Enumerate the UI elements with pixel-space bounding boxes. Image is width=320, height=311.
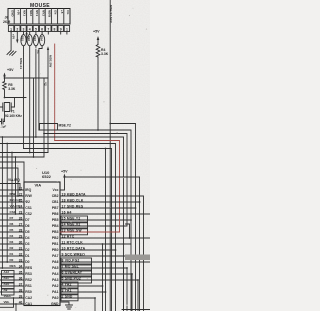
svg-text:D4: D4 — [10, 234, 14, 238]
svg-text:3.3K: 3.3K — [8, 87, 16, 91]
svg-text:Y1: Y1 — [11, 110, 15, 114]
svg-text:RS0: RS0 — [25, 290, 32, 294]
svg-text:MY2: MY2 — [41, 10, 45, 16]
svg-text:PB5: PB5 — [52, 218, 59, 222]
filter FB4 oval — [40, 35, 45, 46]
svg-text:22: 22 — [19, 192, 23, 196]
scan specks — [35, 167, 38, 170]
svg-text:PB7: PB7 — [52, 206, 59, 210]
pin 35 RS3 — [0, 273, 24, 275]
svg-text:2: 2 — [16, 28, 18, 32]
wire mesh lv3 — [15, 157, 17, 214]
svg-text:Φ2.CLK: Φ2.CLK — [10, 198, 22, 202]
svg-text:28: 28 — [19, 228, 23, 232]
svg-text:35: 35 — [19, 270, 23, 274]
wire mesh h2 MSE.X2 — [44, 134, 127, 227]
left label boxes A12-A9 — [2, 271, 15, 278]
svg-text:R/W: R/W — [10, 192, 16, 196]
svg-text:21: 21 — [19, 186, 23, 190]
svg-text:26-9: 26-9 — [3, 20, 10, 24]
pin 40 CA1 — [0, 303, 24, 305]
svg-text:CA2: CA2 — [25, 296, 32, 300]
svg-text:D0: D0 — [25, 260, 29, 264]
svg-text:D6: D6 — [10, 222, 14, 226]
svg-text:D3: D3 — [10, 240, 14, 244]
svg-text:29: 29 — [19, 234, 23, 238]
svg-text:GND: GND — [51, 302, 59, 306]
svg-text:PB6: PB6 — [52, 212, 59, 216]
svg-text:VBL: VBL — [4, 300, 10, 304]
svg-text:MY1: MY1 — [35, 10, 39, 16]
svg-text:RES: RES — [10, 264, 16, 268]
svg-text:PA0: PA0 — [52, 296, 58, 300]
svg-text:D1: D1 — [25, 254, 29, 258]
pin 37 RS1 — [0, 285, 24, 287]
+5V arrow between filters — [26, 34, 28, 42]
svg-text:VIA.IRQ: VIA.IRQ — [8, 178, 20, 182]
svg-text:33: 33 — [19, 258, 23, 262]
svg-text:D3: D3 — [25, 242, 29, 246]
wire mesh h1 MSE.Y2 — [39, 130, 131, 244]
pin 28 D5 — [0, 231, 24, 233]
svg-text:CS2: CS2 — [25, 212, 32, 216]
wire v2 — [29, 32, 31, 153]
wire IRQ feed — [0, 184, 20, 191]
wire MSE.X1 v1 — [23, 32, 25, 149]
svg-text:GND: GND — [10, 10, 14, 16]
svg-text:D2: D2 — [10, 246, 14, 250]
svg-text:CS2: CS2 — [10, 210, 16, 214]
wire mesh h8 — [0, 156, 44, 158]
svg-text:D4: D4 — [25, 236, 29, 240]
gray blob — [125, 255, 150, 261]
pin 36 RS2 — [0, 279, 24, 281]
wire long vertical from top — [110, 0, 135, 311]
svg-text:39: 39 — [19, 294, 23, 298]
svg-text:PA3: PA3 — [52, 278, 58, 282]
resistor R5 — [3, 79, 7, 98]
svg-text:D7: D7 — [25, 218, 29, 222]
svg-text:MSW: MSW — [48, 10, 52, 17]
svg-text:34: 34 — [19, 264, 23, 268]
svg-text:MSE.Y1.SCC: MSE.Y1.SCC — [109, 5, 113, 24]
pin 22 R/W — [0, 195, 24, 197]
svg-text:IRQ: IRQ — [25, 188, 31, 192]
pin 25 Φ2 — [0, 201, 24, 203]
svg-text:RS1: RS1 — [25, 284, 32, 288]
pin 31 D2 — [0, 249, 24, 251]
svg-text:6522: 6522 — [42, 174, 52, 179]
svg-text:D6: D6 — [25, 224, 29, 228]
svg-text:PA4: PA4 — [52, 272, 58, 276]
svg-text:.1µF: .1µF — [1, 125, 7, 129]
svg-text:9: 9 — [60, 28, 62, 32]
svg-text:31: 31 — [19, 246, 23, 250]
wire R4 down — [97, 57, 99, 130]
bottom right exit line — [122, 309, 150, 311]
wire mesh lv1 — [1, 137, 3, 268]
svg-text:D7: D7 — [10, 216, 14, 220]
svg-text:5: 5 — [35, 28, 37, 32]
svg-text:GN: GN — [54, 10, 58, 14]
pin 30 D3 — [0, 243, 24, 245]
pin 24 CS1 — [0, 207, 24, 209]
svg-text:14 MSE.X2: 14 MSE.X2 — [62, 222, 81, 226]
svg-text:6: 6 — [41, 28, 43, 32]
filter FB1 oval — [21, 35, 26, 46]
svg-text:40: 40 — [19, 300, 23, 304]
wire mesh h5 — [0, 144, 116, 311]
junction stub — [126, 224, 130, 238]
wire mesh lv2b — [11, 153, 13, 209]
+5V line to bus — [65, 176, 140, 178]
wire v7 rail corner h7 with +5V arrow — [47, 50, 49, 153]
pin 39 CA2 — [0, 297, 24, 299]
wire mesh lv2 — [6, 144, 8, 263]
svg-text:PB4: PB4 — [52, 224, 59, 228]
svg-text:D5: D5 — [10, 228, 14, 232]
svg-text:27: 27 — [19, 222, 23, 226]
svg-text:MX1: MX1 — [23, 10, 27, 16]
svg-text:PA7: PA7 — [52, 254, 58, 258]
svg-text:8: 8 — [54, 28, 56, 32]
svg-text:38: 38 — [19, 288, 23, 292]
svg-text:36: 36 — [19, 276, 23, 280]
wire MSE.Y2 v4 (jog) — [39, 32, 42, 131]
red wire MSE.SW row overlabel — [60, 231, 120, 233]
svg-text:MSE.Y2: MSE.Y2 — [59, 124, 72, 128]
wire mesh h6 — [24, 149, 112, 311]
svg-text:PB3: PB3 — [52, 230, 59, 234]
svg-text:+5V: +5V — [93, 30, 100, 34]
connector stubs c7-c10 — [48, 32, 67, 35]
svg-text:26: 26 — [19, 216, 23, 220]
wire mesh h3 — [0, 137, 124, 311]
svg-text:MX2: MX2 — [29, 10, 33, 16]
svg-text:23: 23 — [19, 210, 23, 214]
wire mesh h10 — [0, 168, 18, 196]
pin 29 D4 — [0, 237, 24, 239]
svg-text:MSE.X1: MSE.X1 — [19, 58, 23, 69]
bottom left verticals — [0, 298, 16, 311]
svg-text:VIA.CS: VIA.CS — [10, 204, 20, 208]
svg-text:PA1: PA1 — [52, 290, 58, 294]
wire vertical x105.5 — [105, 149, 107, 311]
pin 26 D7 — [0, 219, 24, 221]
svg-text:VIA: VIA — [35, 183, 42, 188]
+5V down arrow — [16, 32, 18, 41]
svg-text:D0: D0 — [10, 258, 14, 262]
svg-text:MSE.SW: MSE.SW — [49, 55, 53, 67]
svg-text:+5: +5 — [60, 10, 64, 14]
wire mesh h7 — [0, 152, 48, 154]
svg-text:D5: D5 — [25, 230, 29, 234]
svg-text:1: 1 — [66, 28, 68, 32]
crystal Y1 — [0, 98, 15, 112]
svg-text:3: 3 — [23, 28, 25, 32]
box label VID.PG2 — [61, 258, 92, 265]
pin 27 D6 — [0, 225, 24, 227]
filter FB2 oval — [27, 35, 32, 46]
svg-text:+5V: +5V — [7, 68, 14, 72]
svg-text:D2: D2 — [25, 248, 29, 252]
connector J6 body — [8, 9, 70, 25]
svg-text:R/W: R/W — [25, 194, 32, 198]
wire v6 rail corner h8 — [43, 78, 45, 157]
svg-text:+5V: +5V — [12, 34, 16, 39]
svg-text:30: 30 — [19, 240, 23, 244]
svg-text:CG: CG — [66, 10, 70, 15]
filter FB3 oval — [33, 35, 38, 46]
svg-text:PA6: PA6 — [52, 260, 58, 264]
svg-text:CB1: CB1 — [52, 200, 59, 204]
svg-text:3.3K: 3.3K — [101, 52, 109, 56]
svg-text:PB2: PB2 — [52, 236, 59, 240]
svg-text:CA1: CA1 — [25, 302, 32, 306]
svg-text:D1: D1 — [10, 252, 14, 256]
wire v5 from rail — [33, 78, 35, 157]
svg-text:+5V: +5V — [17, 10, 21, 15]
wire v3 black — [35, 32, 37, 138]
svg-text:4: 4 — [29, 28, 31, 32]
resistor R4 — [96, 45, 100, 58]
svg-text:CS1: CS1 — [25, 206, 32, 210]
svg-text:37: 37 — [19, 282, 23, 286]
ground GND pin — [60, 302, 69, 305]
svg-text:CB2: CB2 — [52, 194, 59, 198]
pin 32 D1 — [0, 255, 24, 257]
svg-text:PA5: PA5 — [52, 266, 58, 270]
capacitor C left edge — [0, 112, 5, 125]
wire mesh h9 — [0, 162, 24, 182]
crystal circuit line — [5, 97, 27, 99]
wire mesh h4 red MSE.SW — [55, 141, 120, 233]
svg-text:RS2: RS2 — [25, 278, 32, 282]
wire MSE.SW red from c8 — [54, 44, 56, 141]
svg-text:RS3: RS3 — [25, 272, 32, 276]
svg-text:Y1: Y1 — [36, 50, 40, 54]
svg-text:PB0: PB0 — [52, 248, 59, 252]
pin 21 IRQ — [0, 189, 24, 191]
svg-text:PB1: PB1 — [52, 242, 59, 246]
svg-text:32: 32 — [19, 252, 23, 256]
chassis ground — [7, 51, 16, 56]
pin 38 RS0 — [0, 291, 24, 293]
pin 23 CS2 — [0, 213, 24, 215]
svg-text:7: 7 — [47, 28, 49, 32]
+5V rail — [5, 77, 49, 79]
svg-text:Vcc: Vcc — [52, 188, 58, 192]
op-amp U10 VIA 6522 box — [24, 182, 60, 306]
wire pin1 to ground — [11, 32, 17, 51]
pin 33 D0 — [0, 261, 24, 263]
label MSE.Y2 bracket — [40, 124, 58, 130]
svg-text:PA2: PA2 — [52, 284, 58, 288]
svg-text:+5V: +5V — [61, 170, 68, 174]
svg-text:RES: RES — [25, 266, 33, 270]
svg-text:Φ2: Φ2 — [25, 200, 30, 204]
svg-text:15 MSE.Y2: 15 MSE.Y2 — [62, 216, 81, 220]
pin 34 RES — [0, 267, 24, 269]
svg-text:92.160 KHz: 92.160 KHz — [5, 114, 22, 118]
connector J6 pin number boxes — [8, 26, 13, 32]
